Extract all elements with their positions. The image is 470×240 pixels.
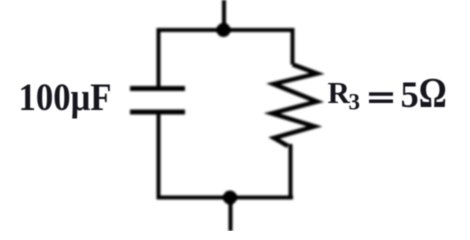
resistor R3 zigzag body: [272, 65, 317, 147]
capacitor C (100uF) bottom plate: [130, 110, 185, 115]
node B junction dot (bottom): [223, 191, 237, 205]
wire left branch upper: [157, 28, 161, 88]
svg-text:100μF: 100μF: [19, 75, 112, 119]
svg-text:5: 5: [401, 74, 419, 115]
wire top rail: [157, 28, 295, 32]
wire bottom rail: [157, 196, 294, 200]
wire top stub (node A lead): [222, 0, 226, 30]
wire right branch upper: [291, 28, 295, 65]
capacitor C (100uF) top plate: [130, 86, 185, 91]
svg-text:Ω: Ω: [419, 71, 447, 117]
wire left branch lower: [157, 112, 161, 199]
svg-text:R3: R3: [328, 75, 361, 115]
wire right branch lower: [289, 144, 293, 199]
equals sign of resistor value: [369, 92, 393, 96]
wire bottom stub (node B lead): [229, 198, 233, 232]
node A junction dot (top): [217, 23, 231, 37]
